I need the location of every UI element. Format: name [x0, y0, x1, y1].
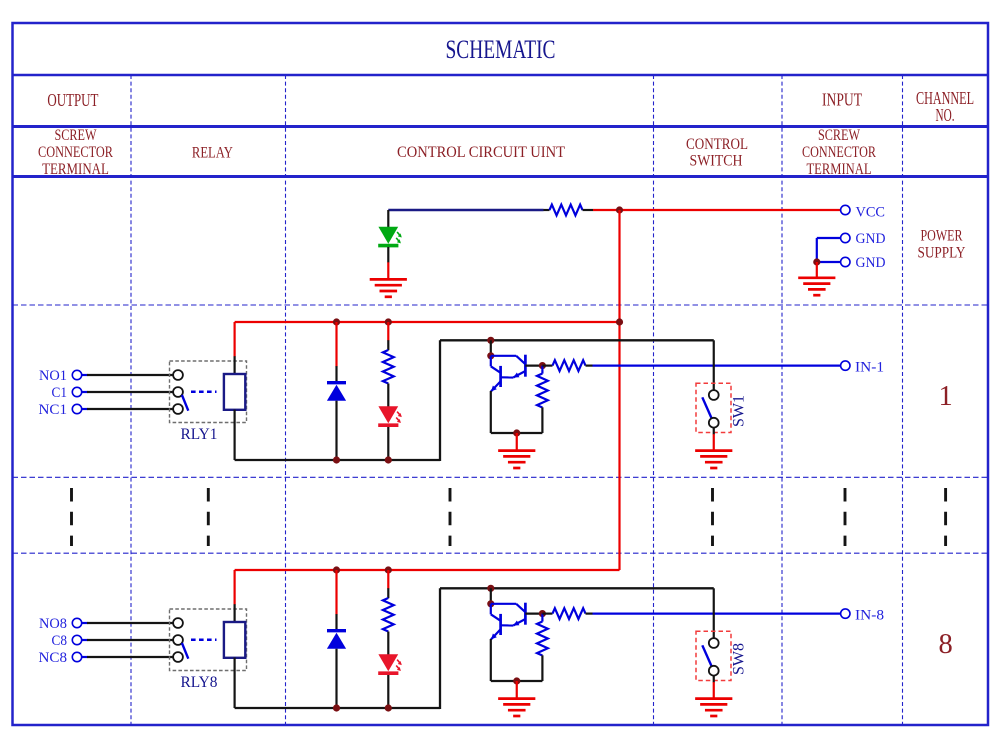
wire resistor to VCC [593, 209, 841, 211]
node emitter ground junction [513, 429, 520, 436]
wire collector bus [440, 339, 714, 341]
switch SW8 contact top [709, 638, 719, 648]
svg-text:GND: GND [856, 231, 886, 247]
terminal GND upper [841, 233, 850, 242]
relay RLY1 actuator dashes [191, 391, 217, 394]
wire switch bottom red [713, 434, 715, 450]
node red bus resistor [385, 566, 392, 573]
node red bus diode [333, 318, 340, 325]
transistor Q8 collector lead [491, 604, 526, 612]
wire emitter ground link [491, 680, 543, 682]
switch SW8 contact bottom [709, 666, 719, 676]
ground transistor [498, 451, 535, 468]
wire gnd lower [817, 261, 841, 263]
wire coil top black [234, 356, 236, 375]
node red bus diode [333, 566, 340, 573]
node bottom bus led [385, 456, 392, 463]
ground switch SW1 [695, 451, 732, 468]
svg-text:TERMINAL: TERMINAL [807, 161, 872, 178]
transistor Q1b collector lead [491, 356, 501, 373]
wire base resistor right stub [586, 612, 593, 614]
relay RLY8 contact NC [173, 652, 183, 662]
wire collector bus [440, 587, 714, 589]
switch SW8 arm [702, 645, 711, 666]
terminal C8 [72, 635, 81, 644]
wire coil top black [234, 604, 236, 623]
continuation dots column 1 [70, 488, 73, 546]
terminal IN-1 [841, 361, 850, 370]
wire emitter down [490, 391, 492, 433]
wire coil top red [234, 322, 236, 357]
header SCREW CONNECTOR TERMINAL right [802, 127, 876, 178]
transistor Q8 base bar [524, 603, 527, 625]
continuation dots column 5 [844, 488, 847, 546]
resistor base R1c [553, 360, 586, 371]
transistor Q1 base bar [524, 355, 527, 377]
relay RLY8 outline [170, 609, 247, 671]
wire coil bottom [234, 410, 236, 460]
svg-text:INPUT: INPUT [822, 90, 862, 110]
wire pulldown bottom [541, 655, 543, 681]
svg-text:IN-8: IN-8 [855, 607, 884, 623]
svg-text:RLY1: RLY1 [181, 426, 218, 443]
node collector junction [487, 337, 494, 344]
svg-text:CONTROL CIRCUIT UINT: CONTROL CIRCUIT UINT [397, 144, 565, 161]
wire coil top red [234, 570, 236, 605]
relay RLY8 coil [224, 622, 245, 658]
resistor pulldown R1b [537, 374, 548, 408]
node base junction [539, 362, 546, 369]
svg-text:SUPPLY: SUPPLY [918, 245, 966, 262]
resistor pulldown R8b [537, 622, 548, 656]
wire switch bottom black [713, 427, 715, 434]
node collector junction [487, 585, 494, 592]
svg-text:1: 1 [938, 381, 952, 412]
node collector node [487, 352, 494, 359]
relay RLY1 outline [170, 361, 247, 423]
header SCREW CONNECTOR TERMINAL left [38, 127, 113, 178]
terminal NO8 [72, 618, 81, 627]
diode D1 flyback [327, 383, 346, 401]
wire gnd upper [817, 238, 841, 262]
resistor LED series R8a [383, 598, 394, 632]
svg-text:POWER: POWER [921, 228, 963, 245]
transistor Q8b collector lead [491, 604, 501, 621]
relay RLY1 armature [182, 395, 188, 411]
transistor Q8b base lead [501, 624, 514, 626]
svg-text:SWITCH: SWITCH [690, 153, 743, 170]
transistor Q8 emitter [513, 619, 525, 626]
table line header1 bottom [13, 125, 989, 128]
svg-text:SCHEMATIC: SCHEMATIC [446, 35, 556, 64]
node gnd junction [813, 258, 820, 265]
transistor Q8b base bar [499, 614, 502, 635]
table dashed column line 4 [781, 75, 783, 725]
terminal VCC [841, 205, 850, 214]
wire led resistor top black [387, 340, 389, 350]
wire NC1 to relay [81, 408, 173, 410]
wire switch drop [713, 340, 715, 390]
wire pulldown top [541, 366, 543, 374]
header CHANNEL NO. [916, 88, 974, 125]
diode D8 flyback [327, 631, 346, 649]
table dashed row line channel1 bottom [13, 476, 989, 478]
node red bus vertical junction [616, 318, 623, 325]
continuation dots column 3 [449, 488, 452, 546]
svg-text:NC8: NC8 [39, 650, 68, 666]
terminal NO1 [72, 370, 81, 379]
relay RLY8 armature [182, 643, 188, 659]
wire led resistor top black [387, 588, 389, 598]
node bottom bus led [385, 704, 392, 711]
LED green power indicator [378, 227, 402, 246]
transistor Q1 emitter [513, 371, 525, 378]
wire emitter down [490, 639, 492, 681]
table dashed row line power bottom [13, 304, 989, 306]
wire green led cathode red [387, 262, 389, 279]
svg-text:NO1: NO1 [39, 368, 67, 384]
relay RLY1 coil [224, 374, 245, 410]
wire switch bottom black [713, 675, 715, 682]
wire diode bottom [335, 401, 337, 460]
table dashed column line 3 [653, 75, 655, 725]
svg-text:C8: C8 [52, 633, 68, 649]
svg-text:8: 8 [938, 629, 952, 660]
ground switch SW8 [695, 699, 732, 716]
svg-text:TERMINAL: TERMINAL [42, 161, 109, 178]
terminal IN-8 [841, 609, 850, 618]
wire base resistor stub [542, 612, 552, 614]
svg-text:SCREW: SCREW [818, 127, 861, 144]
wire NC8 to relay [81, 656, 173, 658]
ground power supply [798, 278, 835, 295]
wire diode top black [335, 366, 337, 383]
wire resistor to led [387, 384, 389, 407]
svg-text:CONNECTOR: CONNECTOR [802, 144, 876, 161]
table dashed column line 2 [285, 75, 287, 725]
continuation dots column 2 [207, 488, 210, 546]
svg-text:NO8: NO8 [39, 616, 67, 632]
label POWER SUPPLY [918, 228, 966, 262]
wire C1 to relay [81, 391, 173, 393]
transistor Q1 collector lead [491, 356, 526, 364]
transistor Q1b emitter [491, 381, 501, 391]
wire base resistor stub [542, 365, 552, 367]
wire led resistor top red [387, 570, 389, 589]
svg-text:VCC: VCC [856, 205, 886, 221]
svg-text:SW8: SW8 [731, 643, 748, 675]
continuation dots column 4 [711, 488, 714, 546]
relay RLY8 actuator dashes [191, 639, 217, 642]
wire diode top red [335, 322, 337, 367]
continuation dots column 6 [944, 488, 947, 546]
resistor LED series R1a [383, 350, 394, 384]
table dashed row line dots bottom [13, 552, 989, 554]
svg-text:RLY8: RLY8 [181, 674, 218, 691]
node base junction [539, 610, 546, 617]
wire ground stub red [516, 433, 518, 450]
terminal NC8 [72, 652, 81, 661]
svg-text:SW1: SW1 [731, 395, 748, 427]
wire power led to resistor [388, 209, 549, 211]
table dashed column line 1 [130, 75, 132, 725]
header CONTROL SWITCH [686, 136, 748, 170]
wire collector stub [490, 340, 492, 356]
wire green led cathode [387, 247, 389, 263]
relay RLY1 contact NC [173, 404, 183, 414]
svg-text:NC1: NC1 [39, 402, 68, 418]
node power bus junction [616, 206, 623, 213]
wire switch bottom red [713, 682, 715, 698]
svg-text:IN-1: IN-1 [855, 359, 884, 375]
svg-text:NO.: NO. [936, 105, 955, 125]
wire ground stub red [516, 681, 518, 698]
ground power led [370, 279, 407, 296]
table line header2 bottom [13, 175, 989, 178]
transistor Q1b base bar [499, 366, 502, 387]
wire led bottom [387, 675, 389, 708]
svg-text:SCREW: SCREW [55, 127, 98, 144]
svg-text:C1: C1 [52, 385, 68, 401]
wire diode top black [335, 614, 337, 631]
svg-text:OUTPUT: OUTPUT [47, 90, 98, 110]
node bottom bus diode [333, 704, 340, 711]
wire C8 to relay [81, 639, 173, 641]
wire gnd to ground [816, 262, 818, 277]
transistor Q8 base lead [525, 612, 542, 614]
wire left riser [439, 588, 441, 709]
node collector node [487, 600, 494, 607]
table dashed column line 5 [902, 75, 904, 725]
wire NO8 to relay [81, 622, 173, 624]
wire NO1 to relay [81, 374, 173, 376]
LED red channel indicator [378, 406, 402, 425]
svg-text:CONTROL: CONTROL [686, 136, 748, 153]
svg-text:GND: GND [856, 255, 886, 271]
switch SW1 contact bottom [709, 418, 719, 428]
wire channel red bus [235, 569, 620, 571]
relay RLY1 contact C [173, 387, 183, 397]
wire resistor to vcc black stub [583, 209, 594, 211]
table line title bottom [13, 74, 989, 77]
svg-text:RELAY: RELAY [192, 145, 233, 162]
LED red channel indicator [378, 654, 402, 673]
relay RLY8 contact NO [173, 618, 183, 628]
wire input line IN-8 [593, 612, 842, 614]
transistor Q8b emitter [491, 629, 501, 639]
node bottom bus diode [333, 456, 340, 463]
switch SW1 outline [696, 383, 731, 432]
terminal C1 [72, 387, 81, 396]
relay RLY8 contact C [173, 635, 183, 645]
wire green led anode [387, 210, 389, 227]
wire resistor to led [387, 632, 389, 655]
wire bottom bus [235, 707, 440, 709]
switch SW1 contact top [709, 390, 719, 400]
transistor Q1b base lead [501, 376, 514, 378]
switch SW1 arm [702, 397, 711, 418]
node red bus resistor [385, 318, 392, 325]
wire led bottom [387, 427, 389, 460]
relay RLY1 contact NO [173, 370, 183, 380]
wire VCC red bus vertical [618, 210, 620, 570]
wire pulldown bottom [541, 407, 543, 433]
terminal GND lower [841, 257, 850, 266]
wire bottom bus [235, 459, 440, 461]
resistor power series [550, 205, 583, 216]
terminal NC1 [72, 404, 81, 413]
wire diode bottom [335, 649, 337, 708]
ground transistor [498, 699, 535, 716]
svg-text:CONNECTOR: CONNECTOR [38, 144, 113, 161]
wire led resistor top red [387, 322, 389, 341]
switch SW8 outline [696, 631, 731, 680]
wire left riser [439, 340, 441, 461]
wire diode top red [335, 570, 337, 615]
wire base resistor right stub [586, 365, 593, 367]
wire pulldown top [541, 614, 543, 622]
wire channel red bus [235, 321, 620, 323]
resistor base R8c [553, 608, 586, 619]
node emitter ground junction [513, 677, 520, 684]
wire collector stub [490, 588, 492, 604]
wire coil bottom [234, 658, 236, 708]
wire input line IN-1 [593, 365, 842, 367]
wire switch drop [713, 588, 715, 638]
wire emitter ground link [491, 432, 543, 434]
transistor Q1 base lead [525, 365, 542, 367]
